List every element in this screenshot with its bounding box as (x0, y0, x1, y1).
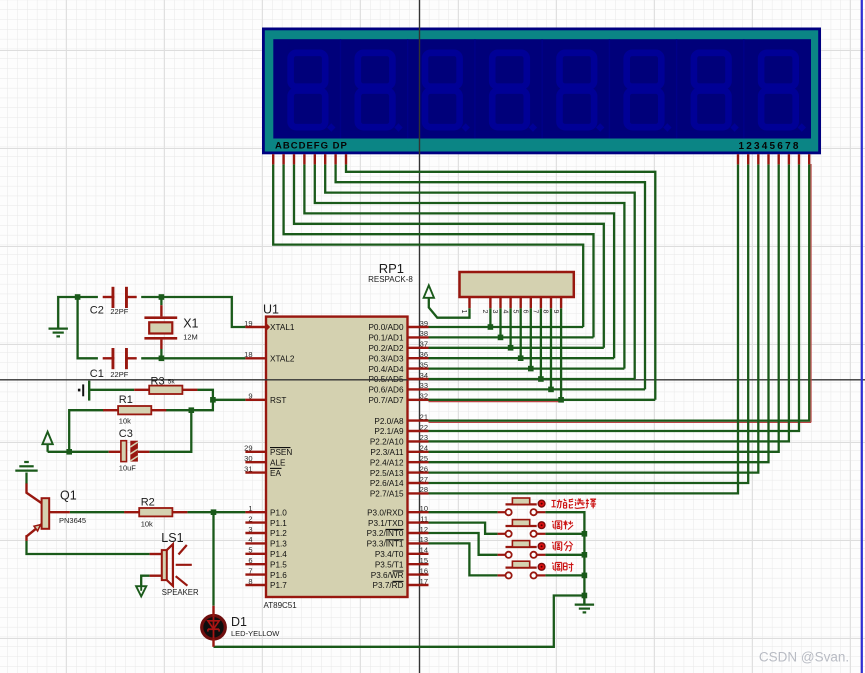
svg-text:P3.2/INT0: P3.2/INT0 (367, 529, 404, 538)
svg-text:P0.6/AD6: P0.6/AD6 (368, 386, 403, 395)
svg-text:2: 2 (481, 310, 488, 314)
svg-text:P2.7/A15: P2.7/A15 (370, 490, 404, 499)
svg-text:P2.6/A14: P2.6/A14 (370, 479, 404, 488)
svg-text:8: 8 (542, 310, 549, 314)
svg-text:P0.2/AD2: P0.2/AD2 (368, 344, 403, 353)
svg-text:P2.2/A10: P2.2/A10 (370, 438, 404, 447)
svg-text:ABCDEFG DP: ABCDEFG DP (275, 141, 348, 152)
svg-text:P2.0/A8: P2.0/A8 (374, 417, 404, 426)
svg-text:LED-YELLOW: LED-YELLOW (231, 629, 280, 638)
svg-text:PN3645: PN3645 (59, 516, 86, 525)
svg-text:X1: X1 (183, 317, 198, 331)
svg-text:RST: RST (270, 396, 286, 405)
svg-text:P2.5/A13: P2.5/A13 (370, 469, 404, 478)
svg-text:SPEAKER: SPEAKER (162, 588, 199, 597)
svg-text:P3.0/RXD: P3.0/RXD (367, 508, 403, 517)
svg-text:P1.7: P1.7 (270, 581, 287, 590)
svg-text:9: 9 (552, 310, 559, 314)
svg-text:C2: C2 (90, 305, 104, 317)
svg-text:P3.1/TXD: P3.1/TXD (368, 519, 404, 528)
svg-text:P0.3/AD3: P0.3/AD3 (368, 354, 403, 363)
svg-text:R3: R3 (151, 375, 165, 387)
svg-text:P1.1: P1.1 (270, 519, 287, 528)
svg-text:6: 6 (522, 310, 529, 314)
svg-text:P0.1/AD1: P0.1/AD1 (368, 334, 403, 343)
svg-text:LS1: LS1 (161, 531, 183, 545)
svg-text:P3.3/INT1: P3.3/INT1 (367, 540, 404, 549)
svg-text:10k: 10k (119, 416, 131, 425)
svg-text:P0.0/AD0: P0.0/AD0 (368, 323, 403, 332)
svg-text:12345678: 12345678 (739, 141, 801, 152)
svg-text:P1.2: P1.2 (270, 529, 287, 538)
svg-text:P3.4/T0: P3.4/T0 (375, 550, 404, 559)
svg-text:R2: R2 (141, 497, 155, 509)
svg-text:C3: C3 (119, 428, 133, 440)
svg-text:D1: D1 (231, 615, 247, 629)
svg-text:7: 7 (532, 310, 539, 314)
svg-text:XTAL1: XTAL1 (270, 323, 295, 332)
svg-text:22PF: 22PF (110, 307, 128, 316)
svg-text:AT89C51: AT89C51 (264, 601, 298, 610)
svg-text:P0.7/AD7: P0.7/AD7 (368, 396, 403, 405)
svg-text:P3.7/RD: P3.7/RD (373, 581, 404, 590)
svg-text:XTAL2: XTAL2 (270, 355, 295, 364)
svg-text:5k: 5k (168, 378, 176, 385)
svg-text:3: 3 (491, 310, 498, 314)
svg-text:P1.4: P1.4 (270, 550, 287, 559)
svg-text:P2.3/A11: P2.3/A11 (370, 448, 404, 457)
svg-text:P1.3: P1.3 (270, 540, 287, 549)
svg-text:R1: R1 (119, 394, 133, 406)
svg-text:EA: EA (270, 469, 281, 478)
svg-text:PSEN: PSEN (270, 448, 292, 457)
svg-text:12M: 12M (183, 332, 198, 341)
svg-text:P3.6/WR: P3.6/WR (371, 571, 404, 580)
svg-text:P0.4/AD4: P0.4/AD4 (368, 365, 403, 374)
svg-text:ALE: ALE (270, 458, 286, 467)
svg-text:U1: U1 (263, 303, 279, 317)
svg-text:P2.4/A12: P2.4/A12 (370, 458, 404, 467)
svg-text:4: 4 (501, 310, 508, 314)
svg-text:P1.0: P1.0 (270, 508, 287, 517)
svg-text:5: 5 (511, 310, 518, 314)
svg-text:10uF: 10uF (119, 463, 137, 472)
svg-text:C1: C1 (90, 368, 104, 380)
svg-text:10k: 10k (141, 520, 153, 529)
svg-text:P2.1/A9: P2.1/A9 (374, 427, 404, 436)
svg-text:P1.5: P1.5 (270, 560, 287, 569)
svg-text:1: 1 (460, 310, 467, 314)
svg-text:22PF: 22PF (110, 370, 128, 379)
svg-text:CSDN @Svan.: CSDN @Svan. (759, 650, 849, 665)
svg-text:P1.6: P1.6 (270, 571, 287, 580)
svg-text:RESPACK-8: RESPACK-8 (368, 275, 413, 284)
svg-text:P3.5/T1: P3.5/T1 (375, 560, 404, 569)
svg-text:Q1: Q1 (60, 489, 77, 503)
